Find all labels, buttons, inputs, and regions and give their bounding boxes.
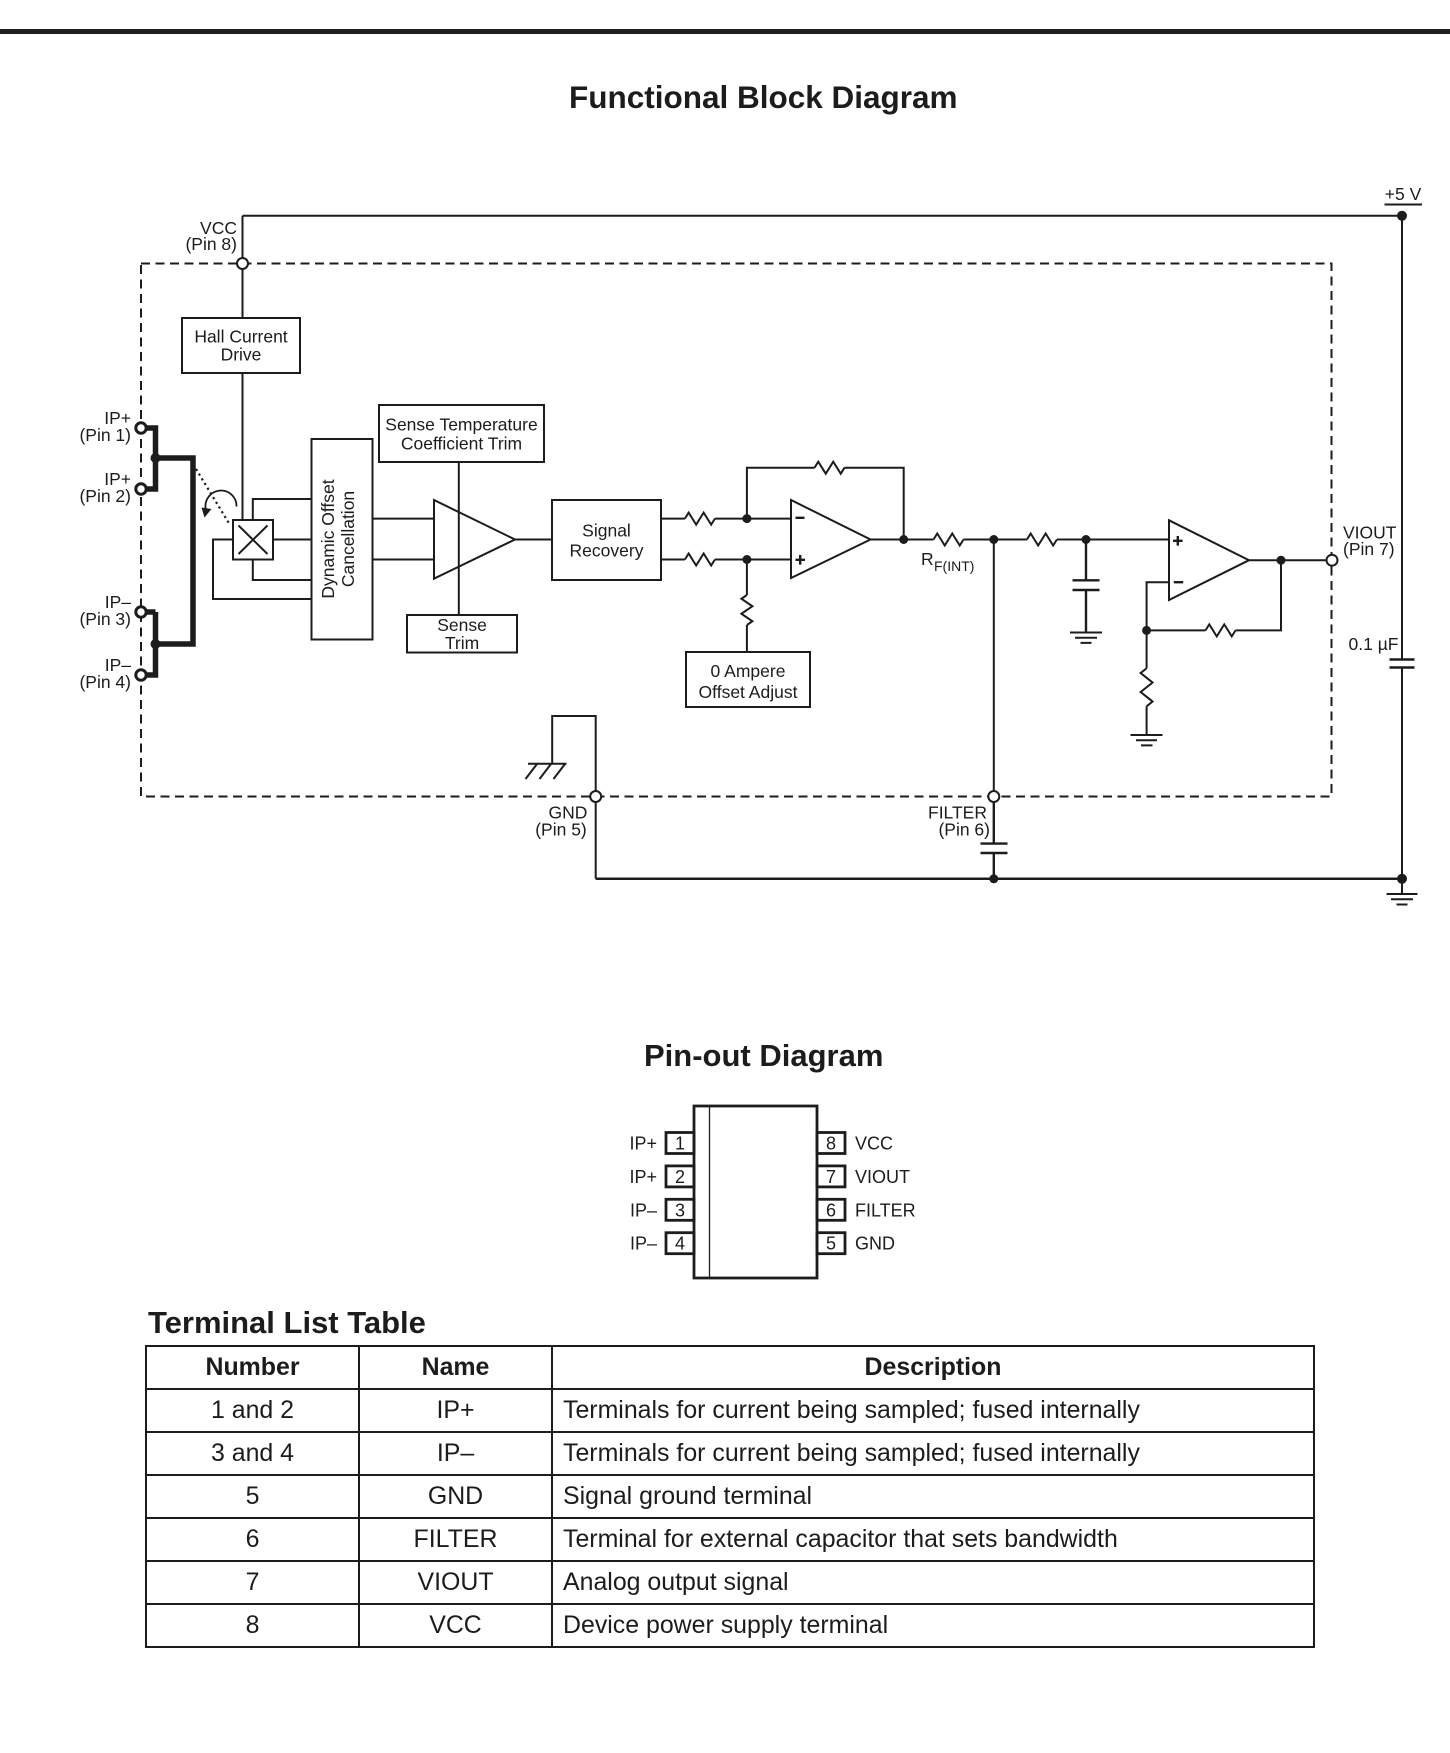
wire gain resistor to ground bbox=[1146, 706, 1148, 735]
resistor R5 feedback bbox=[1206, 624, 1236, 636]
IC package boundary (dashed) bbox=[141, 264, 1332, 797]
node bus junction upper bbox=[151, 453, 161, 463]
wire ground bus bottom bbox=[596, 878, 1402, 881]
resistor R6 gain bbox=[1141, 668, 1153, 706]
svg-text:Coefficient Trim: Coefficient Trim bbox=[401, 434, 522, 454]
title: Functional Block Diagram bbox=[569, 79, 958, 116]
coupling flux dotted arrow bbox=[196, 469, 230, 525]
wire filter node to FILTER pin bbox=[993, 540, 995, 792]
fused internal current path (thick bus) bbox=[147, 428, 194, 675]
svg-text:3: 3 bbox=[675, 1200, 685, 1220]
pin 8 box (VCC) bbox=[817, 1133, 845, 1154]
wire VCC pin to Hall Current Drive bbox=[242, 216, 244, 318]
wire SR to amp2 non-inverting bbox=[661, 559, 791, 561]
wire amp1 to Signal Recovery bbox=[515, 539, 552, 541]
wire hall contact bottom bbox=[253, 560, 312, 581]
resistor R2 bbox=[685, 554, 715, 566]
svg-text:Trim: Trim bbox=[445, 633, 479, 653]
pin FILTER (Pin 6) terminal bbox=[988, 791, 999, 802]
title: Terminal List Table bbox=[148, 1305, 426, 1341]
node amp3 output junction bbox=[1277, 556, 1286, 565]
svg-text:(Pin 4): (Pin 4) bbox=[79, 672, 131, 692]
pin IP- (Pin 4) terminal bbox=[79, 655, 146, 692]
capacitor internal filter bbox=[1073, 540, 1100, 633]
wire DOC to amp1 lower bbox=[373, 559, 435, 561]
node filter-gnd junction bbox=[989, 874, 998, 883]
wire GND pin to signal ground bbox=[552, 716, 596, 791]
top rule bbox=[0, 29, 1450, 34]
wire amp3 output to VIOUT bbox=[1249, 559, 1327, 561]
pin VCC (Pin 8) terminal bbox=[237, 258, 248, 269]
svg-text:Drive: Drive bbox=[221, 345, 262, 365]
wire amp3 feedback bbox=[1147, 560, 1281, 630]
rotation arc arrow bbox=[202, 491, 237, 518]
wire offset adjust bbox=[746, 560, 748, 653]
svg-text:5: 5 bbox=[826, 1234, 836, 1254]
pin IP+ (Pin 1) terminal bbox=[79, 408, 146, 445]
svg-text:(Pin 8): (Pin 8) bbox=[185, 234, 237, 254]
svg-text:IP+: IP+ bbox=[629, 1134, 657, 1154]
wire amp3 inverting input bbox=[1147, 582, 1169, 630]
svg-text:Recovery: Recovery bbox=[570, 541, 644, 561]
svg-text:(Pin 5): (Pin 5) bbox=[535, 820, 587, 840]
node filter junction bbox=[989, 535, 998, 544]
ground internal filter cap bbox=[1070, 633, 1102, 643]
node amp2 output junction bbox=[899, 535, 908, 544]
block Hall Current Drive bbox=[182, 318, 300, 373]
wire trim bus through amp1 bbox=[458, 462, 460, 615]
svg-text:Offset Adjust: Offset Adjust bbox=[699, 682, 798, 702]
pin 6 box (FILTER) bbox=[817, 1199, 845, 1220]
title: Pin-out Diagram bbox=[644, 1038, 883, 1074]
node amp2 inverting junction bbox=[742, 514, 751, 523]
resistor R3 feedback bbox=[815, 462, 845, 474]
wire hall contact right bbox=[273, 539, 312, 541]
svg-text:Signal: Signal bbox=[582, 521, 631, 541]
svg-text:VIOUT: VIOUT bbox=[855, 1167, 910, 1187]
wire to gain resistor bbox=[1146, 630, 1148, 668]
+5 V supply label bbox=[1385, 184, 1423, 205]
svg-text:1: 1 bbox=[675, 1134, 685, 1154]
Terminal List Table bbox=[145, 1345, 1315, 1648]
wire SR to amp2 inverting bbox=[661, 518, 791, 520]
svg-text:Sense Temperature: Sense Temperature bbox=[385, 415, 537, 435]
capacitor bypass 0.1 uF bbox=[1390, 660, 1415, 668]
node right-gnd junction bbox=[1397, 874, 1407, 884]
GND (Pin 5) label bbox=[535, 803, 587, 840]
ground amp3 gain bbox=[1131, 735, 1163, 745]
wire GND pin to ground bus bbox=[595, 802, 597, 879]
hall element (X box) bbox=[233, 520, 273, 560]
VCC (Pin 8) label bbox=[185, 218, 237, 254]
svg-text:4: 4 bbox=[675, 1234, 685, 1254]
wire Hall Current Drive to hall element bbox=[242, 373, 244, 520]
svg-text:0.1 µF: 0.1 µF bbox=[1349, 634, 1399, 654]
FILTER (Pin 6) label bbox=[928, 803, 990, 840]
svg-text:VCC: VCC bbox=[855, 1134, 893, 1154]
block Dynamic Offset Cancellation bbox=[312, 439, 373, 640]
svg-text:IP+: IP+ bbox=[629, 1167, 657, 1187]
svg-text:(Pin 6): (Pin 6) bbox=[938, 820, 990, 840]
svg-text:GND: GND bbox=[855, 1234, 895, 1254]
resistor R0 offset bbox=[741, 595, 752, 625]
resistor R1 bbox=[685, 513, 715, 525]
wire amp2 output bbox=[871, 539, 994, 541]
svg-text:(Pin 1): (Pin 1) bbox=[79, 425, 131, 445]
wire amp2 feedback bbox=[747, 468, 904, 540]
op-amp A3 bbox=[1169, 520, 1249, 600]
block Sense Temperature Coefficient Trim bbox=[379, 405, 544, 462]
op-amp A2 bbox=[791, 500, 871, 578]
IC package body bbox=[694, 1106, 817, 1278]
block Signal Recovery bbox=[552, 500, 661, 580]
node +5V junction bbox=[1397, 211, 1407, 221]
pin 3 box (IP-) bbox=[666, 1199, 694, 1220]
wire DOC to amp1 upper bbox=[373, 518, 435, 520]
svg-text:6: 6 bbox=[826, 1200, 836, 1220]
pin 4 box (IP-) bbox=[666, 1233, 694, 1254]
ground symbol bottom right bbox=[1387, 879, 1418, 905]
svg-text:Cancellation: Cancellation bbox=[338, 491, 358, 587]
pin IP+ (Pin 2) terminal bbox=[79, 469, 146, 506]
capacitor external filter bbox=[981, 802, 1008, 879]
pin VIOUT (Pin 7) terminal bbox=[1327, 555, 1338, 566]
wire +5V top rail bbox=[243, 215, 1403, 217]
node bus junction lower bbox=[151, 639, 161, 649]
RF(INT) label bbox=[921, 549, 974, 574]
svg-text:7: 7 bbox=[826, 1167, 836, 1187]
svg-text:(Pin 2): (Pin 2) bbox=[79, 486, 131, 506]
svg-text:Dynamic Offset: Dynamic Offset bbox=[318, 479, 338, 598]
VIOUT (Pin 7) label bbox=[1343, 523, 1397, 560]
pin IP- (Pin 3) terminal bbox=[79, 592, 146, 629]
op-amp A1 bbox=[434, 500, 515, 579]
svg-text:IP–: IP– bbox=[630, 1234, 657, 1254]
svg-text:Hall Current: Hall Current bbox=[194, 327, 287, 347]
node amp2 non-inverting junction bbox=[742, 555, 751, 564]
pin 1 box (IP+) bbox=[666, 1133, 694, 1154]
resistor RF(INT) bbox=[934, 534, 964, 546]
pin 5 box (GND) bbox=[817, 1233, 845, 1254]
svg-text:R: R bbox=[921, 549, 934, 569]
svg-text:0 Ampere: 0 Ampere bbox=[711, 661, 786, 681]
wire filter node to amp3 bbox=[994, 539, 1169, 541]
earth ground symbol bbox=[526, 764, 567, 779]
svg-text:(Pin 3): (Pin 3) bbox=[79, 609, 131, 629]
node amp3 feedback junction bbox=[1142, 626, 1151, 635]
resistor R4 bbox=[1027, 534, 1057, 546]
svg-text:2: 2 bbox=[675, 1167, 685, 1187]
block Sense Trim bbox=[407, 615, 517, 653]
svg-text:FILTER: FILTER bbox=[855, 1200, 916, 1220]
svg-text:IP–: IP– bbox=[630, 1200, 657, 1220]
svg-text:Sense: Sense bbox=[437, 615, 487, 635]
pin 7 box (VIOUT) bbox=[817, 1166, 845, 1187]
wire +5V right rail bbox=[1401, 216, 1403, 879]
svg-text:8: 8 bbox=[826, 1134, 836, 1154]
svg-text:(Pin 7): (Pin 7) bbox=[1343, 539, 1395, 559]
wire hall contact left (wrap-around) bbox=[213, 540, 312, 600]
node internal filter cap junction bbox=[1082, 535, 1091, 544]
pin 2 box (IP+) bbox=[666, 1166, 694, 1187]
block 0 Ampere Offset Adjust bbox=[686, 652, 810, 707]
wire hall contact top bbox=[253, 499, 312, 520]
pin GND (Pin 5) terminal bbox=[590, 791, 601, 802]
svg-text:+5 V: +5 V bbox=[1385, 184, 1422, 204]
svg-text:F(INT): F(INT) bbox=[934, 558, 974, 574]
